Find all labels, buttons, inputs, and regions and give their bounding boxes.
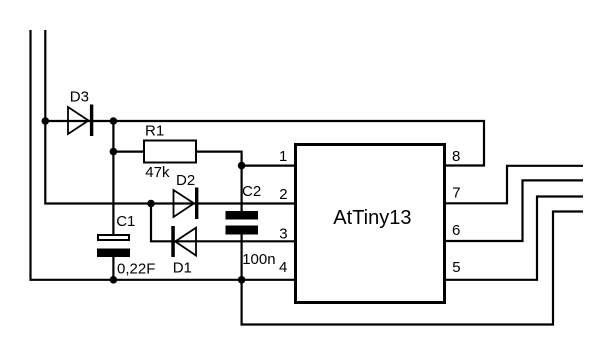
svg-text:D2: D2 [176, 172, 195, 189]
svg-text:4: 4 [279, 259, 287, 276]
svg-text:5: 5 [452, 259, 460, 276]
svg-text:2: 2 [279, 186, 287, 203]
svg-text:C2: C2 [242, 183, 261, 200]
svg-text:7: 7 [452, 184, 460, 201]
svg-text:0,22F: 0,22F [117, 261, 155, 278]
svg-text:3: 3 [279, 226, 287, 243]
svg-text:AtTiny13: AtTiny13 [333, 207, 411, 229]
svg-text:8: 8 [452, 148, 460, 165]
svg-text:D3: D3 [70, 89, 89, 106]
svg-text:C1: C1 [116, 213, 135, 230]
svg-text:1: 1 [279, 148, 287, 165]
svg-text:47k: 47k [145, 164, 170, 181]
svg-text:R1: R1 [145, 123, 164, 140]
svg-text:100n: 100n [242, 251, 275, 268]
svg-text:D1: D1 [173, 260, 192, 277]
svg-text:6: 6 [452, 222, 460, 239]
